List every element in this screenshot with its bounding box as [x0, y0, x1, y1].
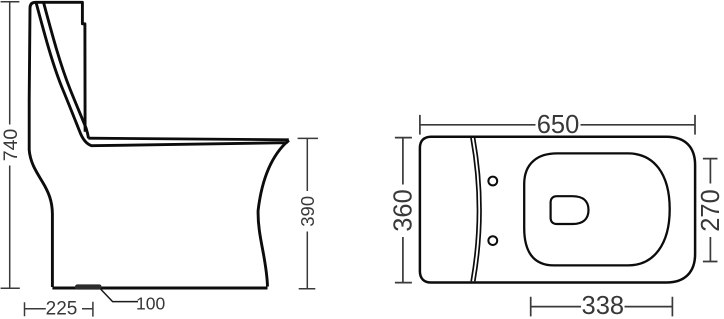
hinge hole 1	[488, 177, 497, 186]
svg-text:390: 390	[297, 196, 318, 227]
svg-text:225: 225	[46, 298, 78, 319]
dim 740 line	[9, 2, 11, 288]
dim 270 line	[709, 159, 711, 262]
dim 650 line	[420, 124, 695, 126]
hinge hole 2	[488, 236, 497, 245]
seat rim outline	[524, 153, 670, 265]
dim 225 ticks	[25, 302, 93, 317]
tank front inner edge	[44, 2, 89, 138]
dim 225 line	[25, 308, 93, 310]
dim 270 ticks	[703, 159, 718, 262]
dim 338 line	[531, 306, 673, 308]
dim 650 ticks	[420, 115, 695, 135]
tank front edge double line (top view)	[471, 138, 481, 281]
leader line 100	[100, 289, 138, 302]
seat top edge	[88, 138, 288, 140]
drain outlet cap	[75, 284, 102, 289]
dim 740 top tick	[1, 1, 20, 3]
dim 360 line	[402, 138, 404, 283]
dim 360 ticks	[395, 138, 412, 283]
base bottom line	[52, 286, 267, 289]
svg-text:270: 270	[697, 189, 724, 232]
svg-text:100: 100	[136, 293, 165, 313]
svg-text:360: 360	[390, 189, 418, 232]
dim 390 line	[306, 138, 308, 288]
svg-text:338: 338	[582, 292, 625, 319]
tank front outer edge and seat underside	[36, 2, 289, 145]
trapway opening	[551, 196, 589, 224]
dim 390 ticks	[298, 138, 318, 288]
svg-text:740: 740	[0, 129, 22, 162]
bowl front contour	[258, 140, 289, 286]
dim 338 ticks	[531, 297, 673, 317]
svg-text:650: 650	[537, 111, 580, 139]
toilet tank and pedestal left outline	[29, 2, 85, 287]
dim 740 bottom tick	[1, 287, 20, 289]
body outline top view	[420, 137, 695, 283]
